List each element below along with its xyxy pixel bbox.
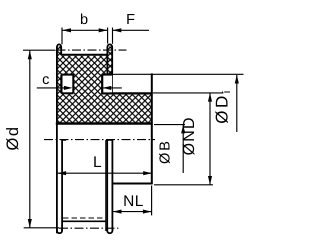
body right face [151, 73, 153, 184]
right flange bottom cap [107, 228, 112, 233]
dimension NL: line with arrows [113, 211, 152, 213]
left flange outline (stadium bar, body left face) [57, 44, 61, 56]
right flange crimp groove (white notch) [103, 76, 112, 93]
pitch line dash-dot (top) [57, 49, 127, 51]
svg-text:Ød: Ød [4, 125, 22, 150]
dimension L: line with outward arrows [58, 172, 152, 174]
dimension c: right arrow into right groove [103, 87, 122, 89]
left flange bottom cap [57, 228, 62, 233]
dimension ØND: vertical line with two arrows [209, 93, 211, 185]
dimension b: extension lines [61, 28, 63, 45]
bore line (crosshatch bottom edge) [56, 122, 153, 124]
right flange stub at axis [106, 139, 113, 141]
dimension b: line and arrows [62, 29, 107, 31]
svg-text:NL: NL [123, 193, 144, 210]
right flange lower half bars [106, 140, 108, 231]
left flange crimp groove (white notch) [62, 76, 72, 93]
right flange outline upper (stadium cap) [107, 44, 112, 74]
axis centerline dash-dot [44, 139, 155, 141]
dimension ØND: extension lines [153, 92, 223, 94]
dimension ØB: vertical line with up arrow [182, 125, 184, 173]
hidden tooth root line (bottom, dashed) [63, 217, 105, 219]
svg-text:ØND: ØND [181, 116, 198, 155]
svg-text:L: L [93, 154, 102, 171]
left flange inner face lower half [61, 140, 63, 231]
dimension Ød: extension lines top and bottom [23, 49, 56, 51]
pulley rim tooth band section (crosshatched) [62, 56, 108, 75]
dimension Ød: vertical line with two arrows [29, 51, 31, 228]
tooth tip line (top edge of rim) [62, 54, 108, 56]
svg-text:ØDi: ØDi [213, 88, 234, 123]
svg-text:F: F [126, 12, 135, 28]
right flange outer face lower extension [111, 72, 113, 94]
pulley mid web section between flange grooves (crosshatched) [73, 75, 102, 94]
step shoulder line right side (top of hub band) [102, 92, 153, 94]
dimension ØB: extension line [154, 124, 185, 126]
rim top edge right of flange / OD extension line [112, 73, 244, 75]
svg-text:b: b [80, 12, 88, 28]
dimension ØDi: vertical line with up arrow [236, 75, 238, 132]
dimension F: extension line [112, 28, 114, 44]
bore inner line lower right (short) [105, 140, 107, 231]
dimension NL: right extension line [151, 186, 153, 216]
tooth tip line mirrored (bottom, solid) [63, 220, 106, 222]
hub bottom line [112, 183, 152, 185]
pulley lower body band above bore (crosshatched) [57, 93, 152, 123]
left flange section fill (crosshatched) [56, 47, 62, 94]
dimension F: tail line and arrow [113, 29, 149, 31]
right flange section fill (crosshatched) [107, 47, 113, 75]
svg-text:ØB: ØB [157, 139, 173, 164]
mirrored pitch line dash-dot (bottom) [59, 227, 118, 229]
dimension c: left leader and arrow into groove [37, 87, 64, 89]
left flange lower stub at axis [62, 139, 66, 141]
svg-text:c: c [42, 72, 49, 88]
